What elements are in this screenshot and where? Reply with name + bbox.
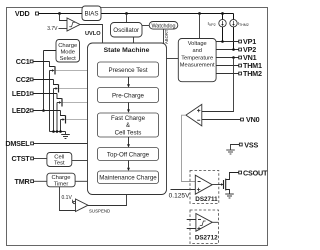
wire VP2 row [216,49,239,51]
svg-text:LED1: LED1 [12,89,30,98]
transistor Q4 (LED2) [61,111,66,132]
transistor CSOUT FET [221,173,239,194]
pin THM2 [239,72,242,75]
wire timer to suspend comparator [60,187,76,211]
node VN1 junction [232,56,235,59]
current source ITHM2 [233,14,235,50]
op-amp DS2711 [195,175,212,194]
svg-text:Presence Test: Presence Test [108,67,147,74]
node rail-IVP2 junction [221,12,224,15]
maintenance charge box [98,171,159,184]
wire oscillator to state machine [133,37,135,43]
wire Q2 gate [59,88,88,90]
svg-text:State Machine: State Machine [104,47,150,54]
charge mode select box [56,40,80,63]
wire THM2 row [216,73,239,75]
node CMS-LED2 junction [42,109,45,112]
node IVP2-VP1 junction [221,40,224,43]
wire arrow 4 [128,161,130,168]
svg-text:TMR: TMR [15,177,31,186]
node VDD-UVLO junction [58,12,61,15]
svg-text:CellTest: CellTest [54,154,65,166]
wire VDD rail [39,13,234,15]
node rail junction Q4 [59,130,62,133]
transistor Q1 (CC1) [50,62,56,132]
wire 0.125V to DS2711 + input [171,189,196,191]
svg-text:CC2: CC2 [16,75,30,84]
svg-text:3.7V: 3.7V [47,26,58,32]
wire LED1 row [33,93,57,95]
svg-text:VDD: VDD [15,9,30,18]
wire source rail [50,131,66,133]
voltage temperature measurement box [199,14,201,39]
pin THM1 [239,64,242,67]
wire oscillator to watchdog [142,25,149,27]
svg-text:ChargeTimer: ChargeTimer [51,175,70,187]
oscillator box [126,14,128,23]
op-amp DS2712 [196,214,212,232]
svg-text:BIAS: BIAS [84,11,98,18]
svg-text:Top-Off Charge: Top-Off Charge [107,151,150,158]
wire VSS to ground [231,145,240,150]
wire arrow 1 [128,77,130,85]
svg-text:THM2: THM2 [243,69,262,78]
cell test box [47,153,72,167]
wire CC1 row [33,61,50,63]
svg-text:CC1: CC1 [16,57,30,66]
svg-text:LED2: LED2 [12,106,30,115]
presence test box [98,62,159,77]
ground (FET sources) [61,132,70,139]
svg-text:DS2712: DS2712 [195,234,218,241]
svg-text:DS2711: DS2711 [195,196,218,203]
ground (CSOUT FET) [225,194,234,198]
wire THM1 row [216,65,239,67]
node ITHM2-VP2 junction [232,48,235,51]
svg-text:VN0: VN0 [246,115,260,124]
pin VSS [239,143,242,146]
watchdog box [149,22,178,30]
DS2711 dashed box [190,171,219,204]
wire VN1 row [216,57,239,59]
svg-text:SUSPEND: SUSPEND [89,208,110,213]
wire DMSEL row [34,143,88,145]
DS2712 dashed box [190,210,218,244]
pre-charge box [98,88,159,103]
wire 0.1V stub [71,200,74,203]
wire arrow 3 [128,137,130,145]
BIAS box [82,6,101,21]
transistor Q2 (CC2) [54,80,59,132]
svg-text:0.1V: 0.1V [62,195,73,201]
wire TMR row [34,180,47,182]
wire Q4 gate [66,119,88,121]
top-off charge box [98,148,159,161]
wire UVLO output [80,25,103,44]
svg-text:Watchdog: Watchdog [151,24,175,30]
wire VP1 row [216,41,239,43]
wire CTST row [34,158,47,160]
wire UVLO - input [59,28,68,30]
wire DS2711 output to FET gate [212,184,221,186]
fast charge box [98,113,159,137]
svg-text:0.125V: 0.125V [169,193,191,200]
op-amp UVLO comparator [67,18,80,31]
wire sense amp output to DS2711 [182,115,196,181]
svg-text:IVP2: IVP2 [208,21,216,27]
svg-text:ChargeModeSelect: ChargeModeSelect [58,43,77,62]
wire VN0 row [202,119,241,121]
transistor Q3 (LED1) [57,94,62,132]
node rail junction Q2 [52,130,55,133]
svg-text:Oscillator: Oscillator [113,27,139,34]
wire DS2712 input stubs [187,220,196,229]
svg-text:CTST: CTST [12,154,31,163]
wire arrow 2 [128,103,130,110]
wire UVLO + input [60,14,68,21]
pin VP2 [239,48,242,51]
wire VN1 to sense amp + input [202,58,234,112]
svg-text:Maintenance Charge: Maintenance Charge [99,175,157,182]
svg-text:DMSEL: DMSEL [5,139,30,148]
wire charge timer to SM [75,180,87,182]
current source IVP2 [222,14,224,42]
node rail-VTmeas junction [198,12,201,15]
wire CC2 row [33,79,54,81]
ground (VSS) [226,150,235,154]
wire charge-mode-select left [44,51,57,111]
wire ABORT [163,29,165,43]
pin VN1 [239,56,242,59]
wire cell test to SM [72,160,88,162]
pin CSOUT [239,171,242,174]
wire Q3 gate [63,102,88,104]
wire SM to VT measurement [167,58,179,60]
node rail junction Q3 [56,130,59,133]
wire DS2712 output stub [212,221,218,223]
pin VP1 [239,40,242,43]
pin VN0 [241,118,244,121]
op-amp suspend comparator [73,201,75,203]
wire SUSPEND output [88,195,127,206]
svg-text:CSOUT: CSOUT [243,169,268,178]
wire Q1 gate [56,70,88,72]
node rail-oscillator junction [125,12,128,15]
svg-text:ABORT: ABORT [164,29,169,44]
state machine box [88,43,167,195]
wire LED2 row [33,110,61,112]
svg-text:VSS: VSS [244,141,258,150]
op-amp sense amplifier [186,104,202,126]
svg-text:UVLO: UVLO [85,31,101,37]
svg-text:Pre-Charge: Pre-Charge [112,93,145,100]
charge timer box [47,173,75,187]
svg-text:ITHM2: ITHM2 [238,21,249,27]
